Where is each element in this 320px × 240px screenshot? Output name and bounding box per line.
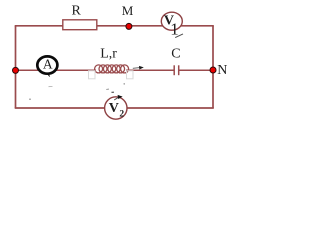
inductor end marker right (faint box) xyxy=(127,71,134,79)
voltmeter V2 circle xyxy=(105,97,127,119)
wire: top left segment xyxy=(15,25,64,27)
wire: left vertical xyxy=(15,26,17,108)
svg-text:2: 2 xyxy=(119,109,124,119)
ammeter A needle xyxy=(48,75,50,77)
speck near bottom-left xyxy=(29,98,31,100)
capacitor C plates xyxy=(173,65,175,75)
voltmeter V2 needle xyxy=(112,92,123,100)
current arrow i xyxy=(133,66,144,70)
node left dot xyxy=(12,67,19,74)
speck dash below coil xyxy=(106,88,109,90)
wire: top right segment (V1 to corner) xyxy=(181,25,214,27)
svg-text:L,r: L,r xyxy=(100,47,117,62)
ammeter A circle xyxy=(37,56,57,73)
speck dash left of V2 area xyxy=(49,85,53,87)
resistor R box xyxy=(63,20,97,30)
wire: ammeter to coil xyxy=(56,69,96,71)
svg-text:N: N xyxy=(217,63,227,78)
wire: top middle segment (R to V1) xyxy=(97,25,164,27)
speck right of coil area xyxy=(124,83,125,84)
voltmeter V1 circle xyxy=(161,12,182,30)
svg-text:M: M xyxy=(122,3,134,18)
svg-text:A: A xyxy=(43,57,53,72)
svg-text:C: C xyxy=(171,47,180,62)
svg-text:R: R xyxy=(72,4,82,19)
wire: capacitor to node N xyxy=(179,69,213,71)
voltmeter V1 needle xyxy=(175,34,183,38)
wire: coil to capacitor xyxy=(126,69,174,71)
svg-text:V: V xyxy=(109,101,119,116)
node N dot xyxy=(210,67,217,74)
wire: right vertical xyxy=(212,26,214,108)
wire: bottom left segment xyxy=(15,107,105,109)
inductor L,r coil xyxy=(95,65,129,73)
node M dot xyxy=(125,23,132,30)
wire: bottom right segment xyxy=(127,107,214,109)
inductor end marker left (faint box) xyxy=(89,71,96,79)
svg-text:1: 1 xyxy=(170,20,179,39)
wire: middle left (node to ammeter) xyxy=(15,69,39,71)
